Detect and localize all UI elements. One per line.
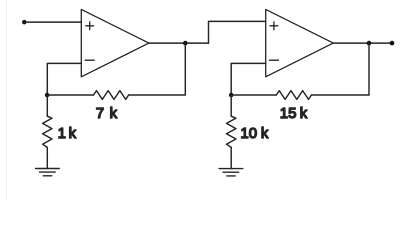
wire [129,94,186,96]
svg-text:k: k [110,105,118,122]
node A (U1 inverting input net) [45,93,50,98]
resistor R1 1 k [43,116,52,147]
ground GND2 [219,169,243,176]
faint page-edge artifact line [6,0,8,201]
svg-text:k: k [300,105,308,122]
label R1 value 1 k [58,125,77,142]
wire [184,43,186,95]
svg-text:15: 15 [280,105,297,122]
wire [209,21,266,43]
wire [230,147,232,168]
node B (U2 inverting input net) [229,93,234,98]
node U1 output junction [183,41,188,46]
svg-text:k: k [261,125,269,142]
svg-text:7: 7 [96,105,104,122]
label R4 value 15 k [280,105,308,122]
wire [24,21,81,23]
resistor R2 7 k [94,91,129,100]
resistor R3 10 k [227,116,236,147]
wire [46,147,48,168]
node U2 output junction [367,41,372,46]
op-amp U2 [266,9,334,76]
wire [333,42,392,44]
label R2 value 7 k [96,105,118,122]
op-amp U1 [81,9,149,76]
ground GND1 [36,169,60,176]
wire [231,63,266,95]
wire [368,43,370,95]
wire [149,42,209,44]
svg-text:k: k [69,125,77,142]
node J2 output terminal [390,41,395,46]
wire [47,63,81,95]
wire [47,94,93,96]
wire [311,94,369,96]
label R3 value 10 k [240,125,269,142]
svg-text:1: 1 [58,125,66,142]
node J1 input terminal [22,20,27,25]
svg-text:10: 10 [240,125,257,142]
wire [230,95,232,116]
wire [231,94,276,96]
wire [46,95,48,116]
resistor R4 15 k [276,91,311,100]
